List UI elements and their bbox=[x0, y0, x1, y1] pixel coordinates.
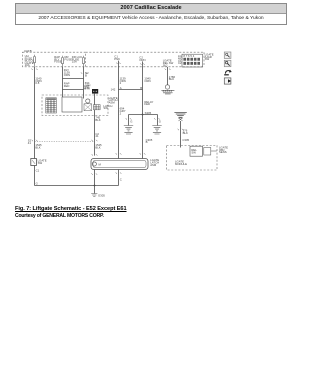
wire A label bbox=[35, 76, 41, 85]
fuse F3 bbox=[82, 56, 84, 67]
svg-text:SW: SW bbox=[38, 161, 43, 165]
box right label bbox=[150, 158, 159, 167]
module aux box bbox=[204, 148, 211, 156]
rung E-F bbox=[119, 89, 143, 91]
svg-text:15A: 15A bbox=[72, 60, 77, 64]
junction dot F bbox=[142, 114, 144, 116]
switch box on wire A bbox=[31, 159, 37, 166]
svg-text:M: M bbox=[99, 162, 102, 166]
wire A lower bbox=[34, 166, 36, 186]
chassis ground G305 bbox=[91, 194, 97, 197]
svg-text:G: G bbox=[130, 119, 132, 123]
wire G labels bbox=[182, 128, 189, 142]
connector stack node F bbox=[139, 55, 145, 61]
ground G401 hatch bbox=[161, 90, 174, 94]
svg-text:RLY: RLY bbox=[64, 68, 69, 72]
fuse F1 label bbox=[25, 54, 35, 67]
latch box right label bbox=[109, 96, 118, 105]
caption bbox=[15, 206, 127, 220]
ladder rung 1 bbox=[63, 78, 84, 80]
module pin grid bbox=[183, 54, 200, 65]
svg-text:G305: G305 bbox=[98, 193, 105, 197]
chassis ground left bbox=[124, 126, 133, 135]
header title block bbox=[15, 3, 287, 25]
svg-text:SENS: SENS bbox=[219, 150, 227, 154]
wire D vertical upper bbox=[94, 94, 96, 105]
wire H (release sw signal) vertical bbox=[167, 67, 169, 85]
latch aux box bbox=[84, 104, 92, 111]
svg-text:BLK: BLK bbox=[169, 77, 174, 81]
module right label bbox=[219, 145, 228, 154]
fuse block dashed box (left, underhood fuse block) bbox=[23, 52, 86, 67]
chassis ground right bbox=[152, 126, 161, 135]
wire A connector marks bbox=[31, 69, 37, 70]
icon zoom-2 bbox=[224, 60, 231, 66]
svg-text:B: B bbox=[146, 140, 148, 144]
ground drop right marks bbox=[154, 118, 160, 119]
switch box label bbox=[38, 158, 47, 164]
ground branch line bbox=[129, 114, 158, 116]
icon zoom-1 bbox=[224, 52, 231, 58]
bowtie under fan bbox=[178, 118, 182, 121]
case ground fan (top of wire G) bbox=[174, 112, 186, 117]
ground drop right bbox=[157, 115, 159, 126]
wire E lower marks bbox=[116, 172, 122, 173]
dashed link labels bbox=[35, 143, 42, 149]
svg-text:B: B bbox=[140, 86, 142, 90]
wire H label bbox=[169, 75, 176, 81]
wire G connector marks bbox=[178, 129, 184, 130]
fuse F3 label bbox=[65, 55, 83, 63]
ladder rung 2 bbox=[63, 89, 84, 91]
wire D lower marks bbox=[91, 173, 97, 174]
svg-text:MODULE: MODULE bbox=[175, 162, 187, 166]
svg-text:FED: FED bbox=[64, 84, 70, 88]
svg-text:BLK: BLK bbox=[95, 146, 100, 150]
svg-text:A: A bbox=[120, 86, 122, 90]
latch motor circle bbox=[86, 99, 90, 103]
svg-text:C: C bbox=[120, 177, 122, 181]
svg-text:SW: SW bbox=[191, 150, 196, 154]
svg-text:BLK: BLK bbox=[95, 118, 100, 122]
svg-text:41: 41 bbox=[28, 141, 32, 145]
ground drop from bus bbox=[94, 186, 96, 194]
svg-text:8 7 6 5 4: 8 7 6 5 4 bbox=[183, 54, 194, 58]
wire H connector marks bbox=[165, 69, 171, 70]
wire B vertical bbox=[62, 67, 64, 97]
rung left tick label bbox=[111, 86, 143, 91]
svg-text:BLK: BLK bbox=[35, 146, 40, 150]
ground drop left marks bbox=[126, 118, 132, 119]
wire C vertical bbox=[83, 67, 85, 99]
svg-text:142: 142 bbox=[111, 88, 116, 92]
ladder labels bbox=[64, 68, 70, 88]
band right dashed edge bbox=[203, 52, 205, 67]
wire E connector mark bbox=[116, 153, 122, 154]
module inner solid box bbox=[190, 146, 203, 156]
svg-text:FED: FED bbox=[144, 102, 150, 106]
connector stack node E bbox=[114, 55, 120, 61]
wire G vertical bbox=[180, 121, 182, 148]
actuator label bbox=[84, 84, 90, 90]
band top dashed line bbox=[86, 51, 204, 53]
wire D connector mark bbox=[92, 154, 98, 155]
hatched connector label bbox=[103, 104, 112, 110]
svg-text:SW: SW bbox=[103, 106, 108, 110]
svg-text:41: 41 bbox=[95, 134, 99, 138]
fuse F2 label bbox=[54, 55, 62, 63]
wire F labels bbox=[144, 76, 153, 144]
wire D lower bbox=[94, 170, 96, 186]
svg-text:0.8: 0.8 bbox=[35, 81, 39, 85]
wire D hatched connector bbox=[94, 105, 101, 110]
icon next-arrow bbox=[224, 78, 231, 84]
svg-text:ASM: ASM bbox=[150, 163, 157, 167]
svg-text:B: B bbox=[85, 74, 87, 78]
svg-text:MTR: MTR bbox=[84, 87, 90, 91]
liftgate latch dashed box bbox=[42, 95, 108, 116]
svg-text:G: G bbox=[36, 181, 38, 185]
svg-text:SW: SW bbox=[205, 57, 210, 61]
wire A splice labels bbox=[36, 169, 40, 186]
svg-text:UHFB: UHFB bbox=[24, 49, 32, 53]
wire F connector mark bbox=[140, 153, 146, 154]
wire E vertical bbox=[118, 67, 120, 159]
latch relay box bbox=[62, 97, 82, 112]
svg-text:G: G bbox=[159, 119, 161, 123]
svg-text:PNK: PNK bbox=[114, 57, 120, 61]
wire E lower bbox=[118, 170, 120, 186]
fuse F1 bbox=[33, 55, 35, 67]
liftgate module dashed box (right) bbox=[182, 54, 203, 67]
liftgate module dashed box (bottom right) bbox=[167, 146, 218, 171]
svg-text:C1: C1 bbox=[36, 169, 40, 173]
rounded latch assembly box bbox=[91, 159, 148, 170]
dashed bus line continuing right bbox=[86, 66, 204, 68]
fuse F2 bbox=[61, 56, 63, 67]
wire A left label bbox=[28, 138, 32, 144]
ground label bbox=[98, 193, 105, 197]
wire A vertical bbox=[34, 67, 36, 159]
wire E labels bbox=[120, 76, 126, 85]
wire D vertical mid bbox=[94, 110, 96, 156]
svg-text:SIG: SIG bbox=[163, 63, 168, 67]
actuator black box bbox=[92, 89, 98, 94]
latch hatched block bbox=[46, 98, 57, 113]
inner liner bbox=[93, 160, 146, 167]
module right label bbox=[205, 52, 214, 61]
svg-text:C2: C2 bbox=[178, 61, 182, 65]
pin circle in box bbox=[92, 162, 96, 166]
wire D labels bbox=[95, 116, 102, 150]
svg-text:C305: C305 bbox=[182, 138, 189, 142]
svg-text:10A: 10A bbox=[25, 63, 30, 67]
svg-text:ORN: ORN bbox=[64, 73, 70, 77]
ground G401 circle bbox=[165, 85, 169, 89]
icon rotate-arrow bbox=[224, 70, 232, 75]
svg-text:ORN: ORN bbox=[139, 58, 145, 62]
svg-text:FUSE: FUSE bbox=[54, 60, 62, 64]
wire E mid labels bbox=[120, 107, 126, 116]
inner box label bbox=[191, 148, 197, 154]
dashed link end marks bbox=[32, 140, 98, 141]
node G label bbox=[163, 59, 174, 68]
ground drop left bbox=[128, 115, 130, 126]
ground bus bbox=[35, 185, 119, 187]
svg-text:ORN: ORN bbox=[144, 79, 150, 83]
wire C label bbox=[85, 71, 91, 90]
dashed link wire A to wire D bbox=[35, 141, 95, 143]
wire C connector marks bbox=[81, 72, 87, 73]
bus junction dot bbox=[94, 185, 96, 187]
wire F vertical bbox=[142, 67, 144, 159]
svg-text:BLK: BLK bbox=[183, 131, 188, 135]
module bottom label bbox=[175, 160, 187, 166]
